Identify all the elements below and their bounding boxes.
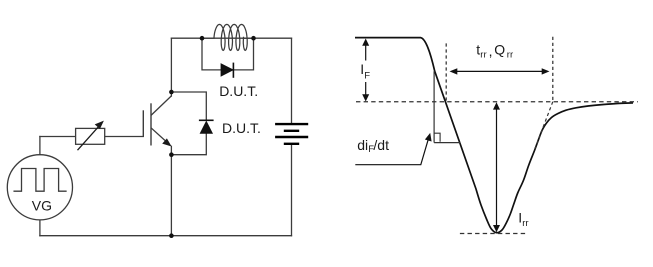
resistor RG (variable) body: [76, 128, 105, 144]
svg-text:rr: rr: [522, 218, 528, 229]
IF arrow (double headed, split by label): [362, 39, 369, 102]
wire VG to resistor R: [40, 136, 76, 138]
battery V1 bar short bottom: [284, 143, 299, 145]
svg-text:D.U.T.: D.U.T.: [222, 120, 261, 136]
waveform diode current curve: [355, 38, 633, 233]
wire resistor to IGBT gate: [105, 136, 144, 138]
inductor L freewheel coil: [214, 24, 247, 50]
wire VG bottom lead: [39, 220, 41, 236]
resistor RG arrow: [78, 121, 104, 151]
svg-text:/dt: /dt: [373, 137, 389, 153]
svg-text:di: di: [357, 137, 368, 153]
battery V1 bar long lower: [275, 136, 308, 138]
wire coil right stub: [244, 37, 254, 39]
junction dot coil left node: [200, 36, 205, 41]
svg-text:F: F: [364, 71, 370, 82]
junction dot collector node: [169, 90, 174, 95]
pulse generator VG circle: [7, 155, 72, 220]
battery V1 bar long top: [275, 123, 308, 125]
svg-text:VG: VG: [32, 198, 52, 214]
wire diode D.U.T.1 branch right: [233, 38, 253, 70]
diode D.U.T.2 cathode bar: [199, 119, 214, 121]
wire top-left vertical (collector riser to top rail): [170, 38, 172, 96]
dashed vertical at zero crossing (t_rr start): [445, 43, 447, 101]
wire lower D.U.T.2 branch top: [171, 92, 206, 120]
wire bottom rail: [40, 235, 292, 237]
junction dot emitter node: [169, 152, 174, 157]
svg-text:rr: rr: [507, 50, 513, 61]
junction dot bottom rail node: [169, 233, 174, 238]
wire emitter to bottom rail: [170, 146, 172, 235]
wire VG top lead: [39, 137, 41, 155]
svg-text:Q: Q: [494, 42, 505, 58]
VG square-wave symbol: [14, 169, 66, 192]
zero level dashed line: [356, 101, 638, 103]
diF/dt slope triangle base: [434, 142, 460, 144]
diode D.U.T.1 triangle: [221, 64, 233, 76]
wire lower D.U.T.2 branch bottom: [171, 133, 206, 155]
svg-text:D.U.T.: D.U.T.: [219, 83, 258, 99]
transistor Q1 IGBT body bar: [150, 103, 152, 145]
svg-text:rr: rr: [480, 50, 486, 61]
wire top rail: [171, 37, 291, 39]
transistor Q1 IGBT gate bar: [142, 110, 144, 137]
wire right rail lower (battery - to bottom rail): [291, 145, 293, 236]
wire right rail upper (to battery +): [291, 38, 293, 123]
wire coil left stub: [202, 37, 214, 39]
trr arrow (double headed): [450, 68, 550, 74]
junction dot coil right node: [251, 36, 256, 41]
transistor Q1 emitter arrowhead: [162, 138, 171, 146]
wire diode D.U.T.1 branch left: [202, 38, 221, 70]
transistor Q1 collector lead: [151, 96, 171, 116]
diF/dt leader line with arrow: [355, 133, 431, 165]
dashed vertical at recovery end (t_rr end): [552, 37, 554, 102]
diode D.U.T.2 triangle: [200, 122, 212, 134]
transistor Q1 emitter lead: [151, 128, 169, 144]
dashed recovery tangent line: [535, 102, 553, 149]
svg-text:,: ,: [489, 43, 493, 59]
diode D.U.T.1 cathode bar: [232, 63, 234, 78]
battery V1 bar short upper: [284, 130, 299, 132]
Irr arrow (double headed): [493, 102, 500, 232]
dashed valley level line: [460, 233, 528, 235]
diF/dt slope triangle vertical side: [433, 71, 435, 142]
diF/dt right-angle mark: [434, 133, 440, 142]
